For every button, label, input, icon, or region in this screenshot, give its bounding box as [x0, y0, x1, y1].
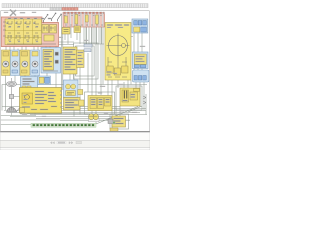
wire loop around node J — [74, 43, 99, 79]
pointer/cross marker — [10, 10, 16, 17]
module P appendix — [79, 100, 84, 106]
connector block F (blue, right lower) — [133, 70, 150, 82]
wire loop inner — [76, 46, 95, 76]
control unit Q (yellow, center bottom) — [88, 96, 112, 111]
secondary tab cells (red/pink highlighted) — [62, 8, 78, 11]
horn (dome symbol) — [6, 107, 17, 113]
connector N (blue with cells) — [38, 76, 51, 85]
lamp symbols T — [89, 114, 100, 122]
frame bottom line — [0, 131, 150, 132]
sheet tab strip (top ruler of connector cells) — [0, 4, 150, 150]
bulkhead connector strip B (pink striped) — [63, 12, 105, 27]
relay S (small yellow, bottom right) — [112, 116, 126, 127]
aerial / in-line fuse chain — [7, 78, 17, 112]
blower motor circle — [109, 36, 128, 56]
component overlapping frame line — [110, 128, 118, 131]
relay block 1 (yellow tall) — [2, 50, 11, 76]
control unit R (yellow, right bottom) — [120, 88, 140, 106]
relay block 2 (blue tall) — [11, 50, 20, 76]
sensor O (blue with yellow lamps) — [64, 80, 79, 98]
ground label tags (green) — [22, 109, 31, 111]
drawing frame — [1, 11, 150, 131]
arrows at right margin — [143, 96, 146, 104]
module P (yellow, dense) — [64, 98, 81, 111]
control module I (yellow) — [63, 47, 77, 74]
ignition switch contacts — [44, 14, 62, 23]
control unit C (blue, top right) — [132, 19, 148, 33]
relay block 3 (yellow tall) — [20, 50, 30, 76]
bottom-left harness runs — [1, 116, 60, 125]
relay K2 (yellow, under strip) — [74, 26, 81, 33]
wire mesh (harness runs) — [2, 14, 147, 131]
link wire chain to relay module — [12, 97, 20, 116]
sensor L (blue, above relay M) — [21, 77, 38, 91]
ground rail labels (green strip) — [31, 123, 96, 127]
connector tags K — [84, 44, 92, 52]
relay block 4 (blue tall) — [31, 50, 40, 76]
switch terminal dots — [47, 13, 62, 16]
terminal labels in heater unit corner — [107, 72, 118, 76]
fuse box A pin stubs — [6, 47, 56, 53]
sensor module H (blue with yellow insert) — [41, 48, 61, 74]
secondary tab cells (grey) — [50, 8, 62, 11]
wire id labels (faint text specks) — [4, 12, 145, 117]
wire loop around unit S — [110, 114, 129, 129]
wire loop around unit R — [116, 86, 142, 110]
control unit E (blue, right mid) — [133, 52, 149, 69]
fuse box A (pink panel) — [1, 17, 58, 47]
heater unit D (large yellow panel) — [105, 23, 131, 81]
connector mark near lamps — [108, 119, 115, 124]
footer toolbar — [0, 132, 150, 150]
wire loop around unit Q — [85, 92, 115, 114]
relay module M (large bright yellow) — [20, 88, 62, 114]
inline connector near P — [78, 90, 83, 95]
switch unit J (small yellow) — [77, 50, 85, 68]
relay K1 (yellow, under strip) — [62, 28, 70, 35]
switch lever at horn — [16, 108, 20, 112]
